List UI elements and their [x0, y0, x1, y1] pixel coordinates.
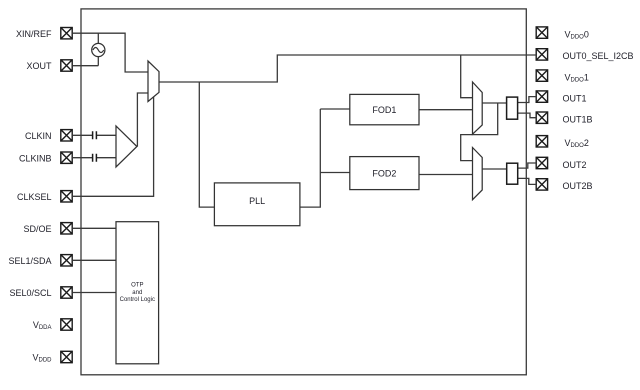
svg-text:OUT0_SEL_I2CB: OUT0_SEL_I2CB [563, 51, 634, 61]
wire XIN/REF to mux M1 input A [72, 33, 148, 72]
FOD1 block [350, 94, 419, 124]
wire buffer A1 output up to mux M1 input B [137, 93, 148, 147]
wire buffer B1 to OUT1B pin [518, 113, 537, 118]
mux M2 (OUT1 select) [473, 82, 483, 134]
pin SEL0/SCL [61, 287, 72, 298]
svg-text:FOD1: FOD1 [372, 105, 396, 115]
svg-text:OUT1: OUT1 [563, 93, 587, 103]
wire tap to PLL input [199, 82, 214, 207]
wire osc top stub [97, 33, 99, 43]
pin VDDA [61, 319, 72, 330]
svg-text:OUT2B: OUT2B [563, 181, 593, 191]
OTP and Control Logic block [116, 222, 159, 364]
wire PLL output riser [300, 109, 320, 207]
svg-text:CLKSEL: CLKSEL [17, 192, 52, 202]
output buffer B2 [507, 163, 518, 184]
outer chip boundary box [81, 9, 526, 375]
svg-text:OTP: OTP [131, 283, 143, 289]
svg-text:PLL: PLL [249, 196, 265, 206]
mux M1 (clock select) [148, 61, 159, 102]
wire riser to FOD2 input [320, 172, 350, 174]
svg-text:VDDD: VDDD [32, 353, 52, 364]
svg-text:Control Logic: Control Logic [120, 297, 155, 303]
wire SEL0/SCL to OTP [72, 292, 116, 294]
pin OUT1 [536, 91, 547, 102]
pin OUT1B [536, 112, 547, 123]
svg-text:SEL1/SDA: SEL1/SDA [8, 256, 51, 266]
pin VDDO2 [536, 136, 547, 147]
svg-text:and: and [132, 290, 142, 296]
wire FOD1 output to mux M2 [419, 109, 473, 111]
svg-text:SD/OE: SD/OE [23, 224, 51, 234]
wire SEL1/SDA to OTP [72, 259, 116, 261]
wire bypass riser to mux M2 input A [461, 55, 473, 98]
svg-text:VDDA: VDDA [33, 320, 52, 331]
wire CLKIN to cap C1 [72, 134, 92, 136]
wire mux M2 output tap down to mux M3 input A [461, 103, 498, 161]
capacitor C2 plates [93, 154, 97, 162]
wire buffer B2 to OUT2B pin [518, 178, 537, 184]
mux M3 (OUT2 select) [473, 148, 483, 200]
pin VDDO1 [536, 70, 547, 81]
wire CLKINB to cap C2 [72, 157, 92, 159]
wire CLKSEL select to mux M1 [72, 97, 153, 197]
wire SD/OE to OTP [72, 227, 116, 229]
svg-text:VDDO1: VDDO1 [565, 72, 589, 83]
wire mux M2 output to buffer B1 [482, 102, 506, 104]
svg-text:VDDO2: VDDO2 [565, 138, 589, 149]
svg-text:FOD2: FOD2 [372, 168, 396, 178]
svg-text:XOUT: XOUT [26, 61, 52, 71]
svg-text:XIN/REF: XIN/REF [16, 29, 52, 39]
pin OUT2 [536, 157, 547, 168]
FOD2 block [350, 157, 419, 190]
wire XOUT to oscillator [72, 65, 98, 67]
oscillator Y1 (circle with sine) [92, 43, 105, 56]
pin CLKINB [61, 152, 72, 163]
svg-text:CLKINB: CLKINB [19, 153, 52, 163]
wire osc bottom stub [97, 57, 99, 66]
PLL block [214, 183, 300, 226]
pin OUT2B [536, 179, 547, 190]
svg-text:CLKIN: CLKIN [25, 131, 52, 141]
pin CLKIN [61, 130, 72, 141]
output buffer B1 [507, 97, 518, 119]
wire FOD2 output to mux M3 [419, 174, 473, 176]
svg-text:VDDO0: VDDO0 [565, 29, 589, 40]
pin SD/OE [61, 223, 72, 234]
svg-text:SEL0/SCL: SEL0/SCL [9, 288, 51, 298]
svg-text:OUT1B: OUT1B [563, 115, 593, 125]
pin SEL1/SDA [61, 255, 72, 266]
wire mux M3 output to buffer B2 [482, 168, 507, 170]
pin OUT0_SEL_I2CB [536, 49, 547, 60]
wire buffer B1 to OUT1 pin [518, 97, 537, 103]
wire riser to FOD1 input [320, 108, 350, 110]
capacitor C1 plates [93, 131, 97, 139]
wire mux M1 output to OUT0_SEL_I2CB pin [159, 55, 536, 82]
wire buffer B2 to OUT2 pin [518, 163, 537, 168]
pin XOUT [61, 60, 72, 71]
wire cap C1 to buffer A1 [96, 134, 116, 136]
pin VDDO0 [536, 27, 547, 38]
svg-text:OUT2: OUT2 [563, 160, 587, 170]
pin VDDD [61, 351, 72, 362]
pin CLKSEL [61, 191, 72, 202]
wire cap C2 to buffer A1 [96, 157, 116, 159]
pin XIN/REF [61, 28, 72, 39]
input buffer A1 (triangle) [116, 126, 137, 167]
